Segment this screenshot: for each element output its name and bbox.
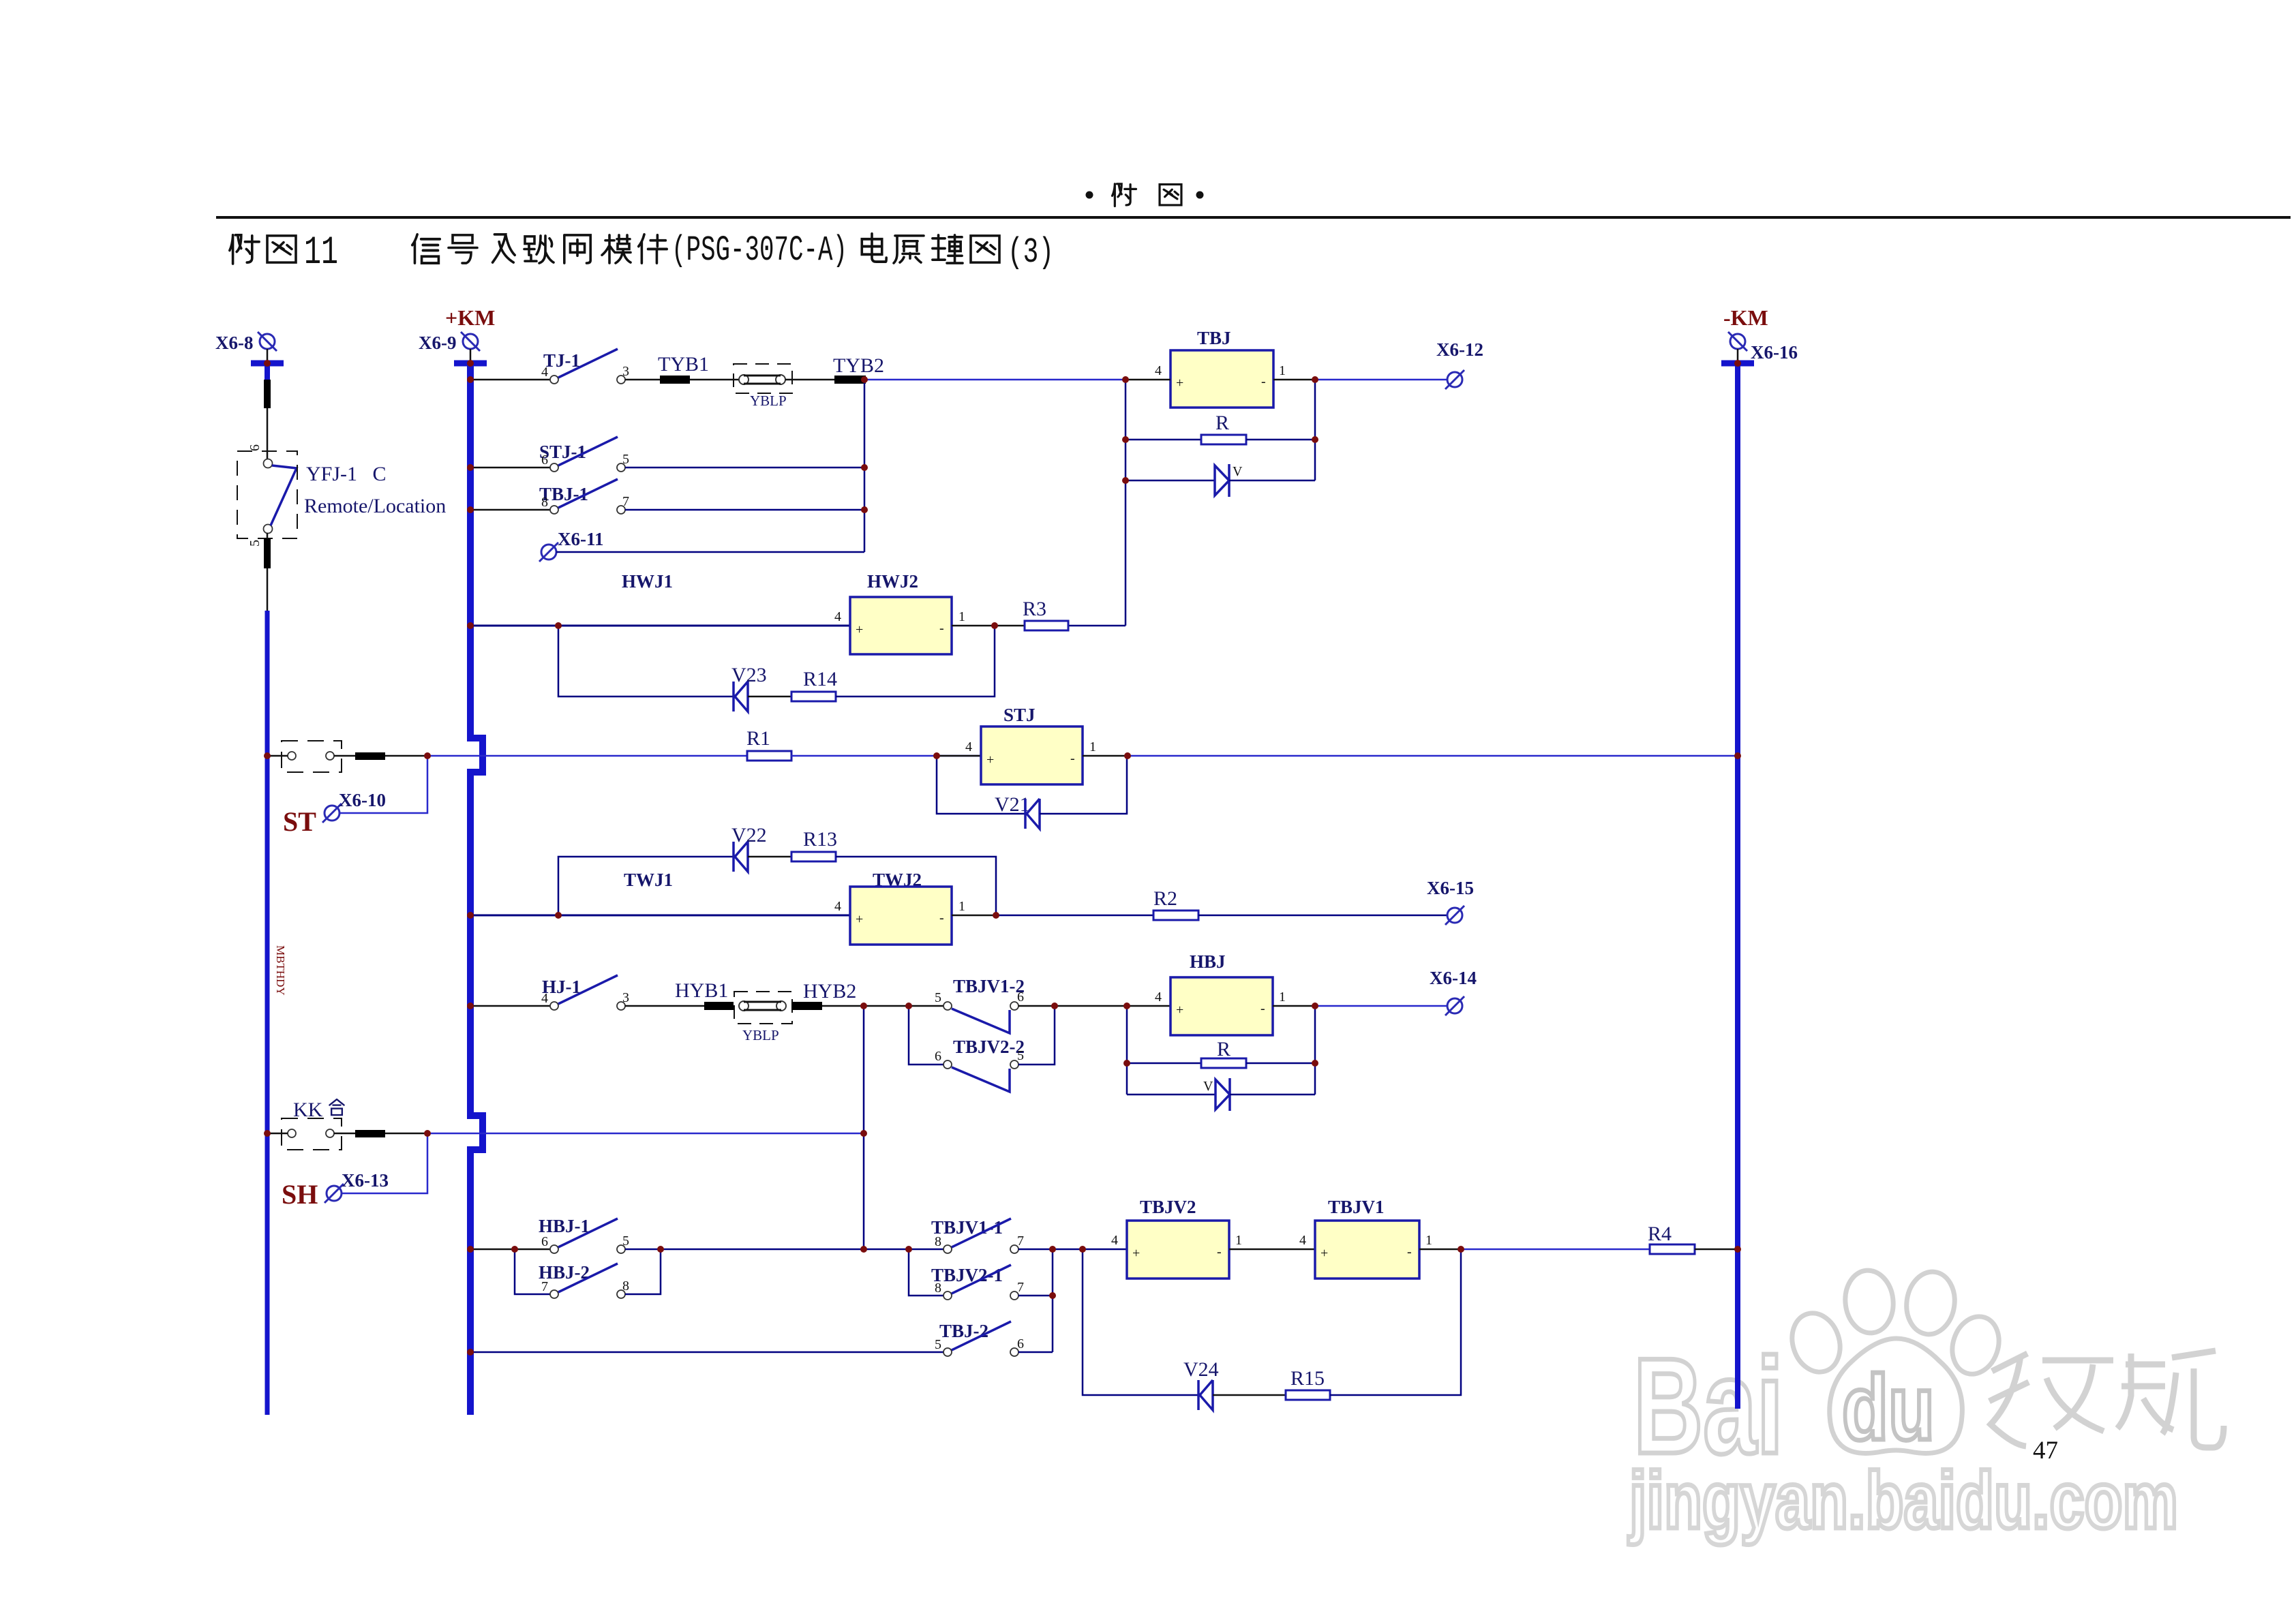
svg-text:R4: R4 — [1648, 1223, 1672, 1245]
svg-text:R15: R15 — [1290, 1367, 1325, 1390]
wire TBJV1-1 to TBJV2 — [1018, 1249, 1127, 1251]
svg-text:TBJ: TBJ — [1197, 328, 1231, 348]
svg-text:+: + — [1176, 376, 1183, 391]
lamp YBLP bottom — [739, 1001, 786, 1011]
title char jian — [639, 234, 667, 263]
title char dian — [862, 234, 886, 262]
junction dots TBJ RV — [1122, 436, 1129, 443]
wire mark to junction ST — [385, 755, 427, 757]
svg-text:4: 4 — [541, 991, 548, 1006]
svg-text:X6-9: X6-9 — [419, 333, 457, 353]
terminal X6-14 circle — [1445, 996, 1464, 1015]
contact TBJV2-1 — [943, 1265, 1018, 1300]
terminal X6-10 circle — [322, 804, 342, 823]
svg-text:V22: V22 — [731, 824, 767, 846]
YFJ-1 changeover contact — [264, 459, 297, 534]
resistor R1 — [747, 751, 791, 761]
vertical TBJ left — [1125, 380, 1127, 626]
resistor R of TBJ — [1201, 435, 1246, 444]
title char zha — [564, 235, 590, 263]
svg-text:TJ-1: TJ-1 — [543, 350, 580, 371]
svg-text:1: 1 — [1425, 1233, 1432, 1248]
contact TBJV1-1 — [943, 1219, 1018, 1253]
resistor R2 — [1153, 911, 1198, 920]
contact HJ-1 — [550, 975, 625, 1010]
fuse link TYB2 — [834, 376, 866, 384]
loop V22 left — [558, 857, 733, 915]
terminal X6-15 circle — [1445, 906, 1464, 925]
svg-text:+KM: +KM — [445, 305, 495, 330]
wire thin below cable mark — [267, 568, 269, 611]
header dot left — [1086, 192, 1093, 199]
wire below YFJ — [267, 533, 269, 538]
svg-text:8: 8 — [541, 495, 548, 510]
loop V23 right vertical — [836, 626, 995, 697]
svg-text:8: 8 — [622, 1279, 629, 1294]
wire HBJ-1 right — [625, 1249, 864, 1251]
branch to X6-13 — [342, 1133, 427, 1193]
terminal X6-9 circle — [461, 332, 480, 351]
svg-text:7: 7 — [1017, 1280, 1024, 1295]
watermark paw pad — [1830, 1338, 1963, 1453]
svg-text:X6-10: X6-10 — [339, 790, 386, 810]
branch to X6-10 — [339, 756, 427, 813]
svg-text:TBJV1-2: TBJV1-2 — [953, 976, 1025, 996]
relay TBJ — [1170, 350, 1273, 408]
terminal X6-16 circle — [1728, 332, 1747, 351]
contact TBJ-1 — [550, 479, 625, 514]
svg-text:+: + — [1132, 1246, 1140, 1261]
wire node to TBJV1-1 — [864, 1249, 943, 1251]
svg-text:5: 5 — [935, 990, 941, 1005]
svg-text:X6-8: X6-8 — [215, 333, 254, 353]
wire left line to ST — [267, 755, 288, 757]
terminal X6-13 circle — [324, 1184, 344, 1203]
svg-text:4: 4 — [541, 365, 548, 380]
wire TBJV1-2 to HBJ — [1018, 1005, 1170, 1007]
svg-text:-: - — [1217, 1244, 1222, 1259]
svg-text:4: 4 — [1155, 990, 1162, 1005]
vertical TBJ right — [1314, 380, 1316, 480]
svg-text:1: 1 — [958, 609, 965, 624]
wire KK to mark — [334, 1133, 355, 1135]
junction dots ST row — [424, 752, 431, 759]
pin wire HWJ2 1 — [952, 625, 995, 627]
title char li — [933, 235, 963, 263]
loop V24 left — [1083, 1249, 1198, 1395]
terminal X6-16 stub — [1737, 349, 1739, 361]
watermark paw toe2 — [1842, 1268, 1896, 1336]
diode V21 — [1025, 799, 1040, 829]
svg-text:YBLP: YBLP — [742, 1027, 779, 1043]
pin wire TBJ 4 — [1126, 379, 1170, 381]
svg-text:R13: R13 — [803, 828, 837, 851]
svg-text:R1: R1 — [746, 727, 770, 750]
wire bus to TBJ-2 — [470, 1351, 943, 1353]
terminal X6-16 T-bar — [1721, 361, 1754, 367]
pushbutton ST dashed box — [282, 741, 342, 772]
watermark jing char — [1989, 1353, 2113, 1446]
cable mark black lower — [264, 538, 271, 568]
diode V of TBJ — [1215, 464, 1229, 497]
vertical HBJ left — [1126, 1006, 1128, 1095]
wire TYB1 to YBLP — [690, 379, 739, 381]
relay TWJ2 — [850, 887, 952, 945]
svg-text:6: 6 — [541, 453, 548, 468]
SECTION: dots — [264, 360, 1741, 1356]
svg-text:+: + — [1320, 1246, 1328, 1261]
svg-text:YFJ-1 C: YFJ-1 C — [306, 463, 387, 485]
relay TBJV2 — [1127, 1221, 1229, 1279]
svg-text:7: 7 — [1017, 1234, 1024, 1249]
svg-text:TYB1: TYB1 — [658, 353, 709, 376]
svg-text:V: V — [1233, 464, 1243, 479]
wire R row HBJ right — [1246, 1062, 1315, 1065]
title char ji — [493, 234, 515, 262]
wire HYB2 to TBJV group — [822, 1005, 943, 1007]
fuse link HYB1 — [704, 1002, 734, 1010]
watermark paw toe3 — [1903, 1269, 1959, 1338]
svg-text:V23: V23 — [731, 664, 767, 686]
junction dots left line — [264, 360, 271, 367]
svg-text:X6-16: X6-16 — [1751, 342, 1798, 363]
junction dot TBJV2-1 row — [1049, 1292, 1056, 1299]
svg-text:YBLP: YBLP — [750, 393, 787, 409]
watermark yan char — [2117, 1351, 2224, 1448]
svg-text:5: 5 — [935, 1337, 941, 1352]
wire X6-8 stub — [267, 349, 269, 361]
wire YBLP to TYB2 — [785, 379, 834, 381]
svg-text:HWJ2: HWJ2 — [867, 571, 918, 592]
SECTION: kk — [267, 1099, 864, 1210]
svg-text:HBJ-1: HBJ-1 — [539, 1216, 590, 1236]
svg-text:7: 7 — [622, 494, 629, 509]
SECTION: bottom — [470, 1197, 1738, 1410]
wire mark to junction KK — [385, 1133, 427, 1135]
title char tiao — [524, 236, 554, 263]
corner R3 to TBJ vertical — [1068, 625, 1126, 627]
svg-text:4: 4 — [834, 609, 841, 624]
title char xin — [412, 234, 440, 263]
svg-text:+: + — [1176, 1003, 1183, 1017]
loop V21 left — [937, 756, 1025, 814]
header dot right — [1196, 192, 1204, 199]
svg-text:-: - — [939, 621, 944, 636]
svg-text:HYB2: HYB2 — [803, 980, 856, 1003]
contact HBJ-2 — [550, 1264, 625, 1298]
svg-text:5: 5 — [622, 1234, 629, 1249]
junction dots HBJ RV — [1123, 1060, 1130, 1067]
SECTION: twj — [470, 824, 1474, 945]
wire left line to KK — [267, 1133, 288, 1135]
svg-text:3: 3 — [622, 364, 629, 379]
terminal X6-11 circle — [539, 542, 558, 562]
YBLP dashed bracket top — [734, 364, 792, 393]
svg-text:Remote/Location: Remote/Location — [304, 495, 446, 517]
wire V row HBJ left — [1127, 1094, 1215, 1096]
vertical TBJV right — [1052, 1249, 1054, 1352]
svg-text:ST: ST — [283, 806, 316, 837]
svg-text:8: 8 — [935, 1281, 941, 1296]
wire TBJ to X6-12 — [1315, 379, 1447, 381]
cable mark black upper — [264, 380, 271, 408]
title char hao — [449, 235, 477, 263]
terminal X6-8 T-bar — [251, 361, 284, 367]
vertical HBJ right — [1314, 1006, 1316, 1095]
junction dots TJ row — [861, 376, 868, 383]
SECTION: watermark — [1628, 1268, 2224, 1546]
svg-text:TYB2: TYB2 — [833, 354, 884, 377]
svg-text:R14: R14 — [803, 668, 837, 690]
svg-text:X6-14: X6-14 — [1430, 968, 1477, 988]
svg-text:TBJV2-2: TBJV2-2 — [953, 1037, 1025, 1057]
svg-text:jingyan.baidu.com: jingyan.baidu.com — [1628, 1456, 2178, 1546]
svg-text:6: 6 — [541, 1234, 548, 1249]
junction dots bus +KM — [467, 376, 474, 383]
resistor R4 — [1650, 1244, 1695, 1254]
svg-text:+: + — [856, 622, 863, 637]
junction dots HWJ row — [555, 622, 562, 629]
junction dots HJ row — [860, 1003, 867, 1009]
svg-text:HWJ1: HWJ1 — [622, 571, 673, 592]
svg-text:R2: R2 — [1153, 887, 1177, 910]
SECTION: hj row — [470, 951, 1477, 1249]
title char tu — [267, 236, 296, 262]
svg-text:X6-15: X6-15 — [1427, 878, 1474, 898]
junction dots TWJ row — [555, 912, 562, 919]
svg-text:-: - — [939, 911, 944, 925]
svg-text:MBTHDY: MBTHDY — [274, 945, 287, 996]
svg-text:-: - — [1407, 1244, 1412, 1259]
svg-text:(3): (3) — [1008, 232, 1054, 273]
wire R row HBJ left — [1127, 1062, 1201, 1065]
svg-text:1: 1 — [1089, 739, 1096, 754]
wire R1 to STJ — [791, 755, 981, 757]
svg-text:-: - — [1260, 1001, 1265, 1016]
svg-text:7: 7 — [541, 1279, 548, 1294]
wire TBJ-1 to node — [625, 509, 864, 511]
loop V22 right — [836, 857, 996, 915]
wire V row TBJ left — [1126, 480, 1215, 482]
terminal X6-9 stub — [470, 349, 472, 361]
wire ST to mark — [334, 755, 355, 757]
wire bus to HWJ2 — [470, 625, 850, 627]
left branch blue line — [265, 611, 270, 1415]
svg-text:-: - — [1070, 751, 1075, 766]
svg-text:-: - — [1261, 374, 1266, 389]
svg-text:(PSG-307C-A): (PSG-307C-A) — [671, 230, 847, 271]
wire R row TBJ right — [1246, 439, 1315, 441]
wire R row TBJ left — [1126, 439, 1201, 441]
wire bus to TWJ2 — [470, 915, 850, 917]
watermark paw toe4 — [1945, 1311, 2006, 1380]
SECTION: buses — [215, 305, 1798, 1415]
resistor R3 — [1025, 621, 1068, 630]
SECTION: stj — [267, 705, 1738, 837]
wire bus to STJ-1 — [470, 467, 550, 469]
loop V24 right — [1330, 1249, 1461, 1395]
svg-text:8: 8 — [935, 1234, 941, 1249]
loop HBJ-2 right — [625, 1249, 661, 1294]
pin wire TBJV1 1 — [1419, 1249, 1462, 1251]
node vertical HYB2 down — [863, 1006, 865, 1249]
svg-text:-KM: -KM — [1723, 305, 1768, 330]
wire V23 to R14 — [748, 696, 791, 698]
svg-text:3: 3 — [622, 990, 629, 1005]
svg-text:TBJV1: TBJV1 — [1328, 1197, 1385, 1217]
cable mark ST — [355, 752, 385, 760]
YFJ-1 dashed box — [237, 451, 297, 538]
wire V row HBJ right — [1230, 1094, 1315, 1096]
wire R2 to X6-15 — [1198, 915, 1447, 917]
diode V24 — [1198, 1380, 1213, 1410]
svg-text:47: 47 — [2033, 1437, 2058, 1465]
contact TBJV2-2 — [943, 1060, 1018, 1092]
header rule — [216, 216, 2291, 219]
contact STJ-1 — [550, 437, 625, 472]
svg-text:1: 1 — [958, 899, 965, 914]
wire bus to TJ-1 — [470, 379, 550, 381]
svg-text:R: R — [1215, 412, 1229, 434]
contact HBJ-1 — [550, 1219, 625, 1253]
svg-text:+: + — [856, 912, 863, 927]
resistor R14 — [791, 692, 836, 701]
wire bus to HJ-1 — [470, 1005, 550, 1007]
contact TJ-1 — [550, 349, 625, 384]
diode V of HBJ — [1215, 1078, 1230, 1111]
wire STJ pin1 to node — [1083, 755, 1128, 757]
svg-text:du: du — [1842, 1356, 1935, 1459]
svg-text:HBJ: HBJ — [1190, 951, 1226, 972]
svg-text:4: 4 — [1111, 1233, 1118, 1248]
svg-text:4: 4 — [834, 899, 841, 914]
wire V22 to R13 — [748, 856, 791, 858]
loop V23 left vertical — [558, 626, 733, 697]
wire below X6-8 bar blue — [265, 363, 270, 380]
svg-text:SH: SH — [282, 1179, 318, 1210]
SECTION: row TJ — [470, 349, 1126, 562]
svg-text:11: 11 — [304, 231, 338, 275]
wire bus to HBJ-1 — [470, 1249, 550, 1251]
junction dots KK row — [424, 1130, 431, 1137]
svg-text:X6-11: X6-11 — [558, 529, 604, 549]
relay HWJ2 — [850, 597, 952, 654]
relay STJ — [981, 726, 1083, 784]
svg-text:5: 5 — [247, 540, 262, 547]
title char yuan — [894, 236, 924, 263]
wire ST junction to R1 — [427, 755, 747, 757]
contact TBJV1-2 — [943, 1002, 1018, 1033]
svg-text:5: 5 — [1017, 1048, 1024, 1063]
pushbutton KK dashed box — [282, 1118, 342, 1150]
wire R4 to -KM — [1695, 1249, 1738, 1251]
SECTION: hwj — [470, 571, 1068, 711]
svg-text:4: 4 — [1299, 1233, 1306, 1248]
svg-text:R3: R3 — [1023, 598, 1046, 620]
wire to YFJ contact — [267, 408, 269, 459]
bus -KM — [1735, 363, 1740, 1409]
terminal X6-12 circle — [1445, 370, 1464, 389]
loop TBJV2-2 right — [1018, 1006, 1055, 1065]
wire STJ-1 to node — [625, 467, 864, 469]
title char fu — [230, 235, 259, 264]
wire TYB2 to TBJ node — [864, 379, 1126, 381]
svg-text:6: 6 — [1017, 990, 1024, 1005]
svg-text:TBJV2: TBJV2 — [1140, 1197, 1196, 1217]
svg-text:STJ: STJ — [1003, 705, 1036, 725]
wire bus to TBJ-1 — [470, 509, 550, 511]
resistor R of HBJ — [1201, 1058, 1246, 1068]
wire TBJV1 to R4 — [1462, 1249, 1650, 1251]
title char mo — [602, 235, 631, 263]
svg-text:R: R — [1217, 1038, 1230, 1060]
loop TBJV2-1 left — [909, 1249, 943, 1296]
title char tu2 — [971, 236, 999, 262]
pin wire TBJ 1 — [1273, 379, 1315, 381]
svg-text:6: 6 — [1017, 1336, 1024, 1351]
wire KK junction to node — [427, 1133, 864, 1135]
loop V21 right — [1040, 756, 1127, 814]
terminal X6-9 T-bar — [454, 361, 487, 367]
pin wire HBJ 1 — [1273, 1005, 1315, 1007]
fuse link TYB1 — [660, 376, 690, 384]
svg-text:6: 6 — [247, 444, 262, 451]
svg-text:HYB1: HYB1 — [675, 979, 728, 1002]
junction dots node vertical — [861, 464, 868, 471]
char HE of KKhe — [329, 1099, 344, 1115]
svg-text:4: 4 — [965, 739, 972, 754]
node vertical TYB2 down to X6-11 row — [864, 380, 866, 552]
wire HWJ2 to R3 — [995, 625, 1025, 627]
relay TBJV1 — [1315, 1221, 1419, 1279]
loop TBJV2-2 left — [909, 1006, 943, 1065]
junction dots HBJ-1 row — [511, 1246, 518, 1253]
YBLP dashed bracket bottom — [734, 992, 792, 1024]
fuse link HYB2 — [791, 1002, 822, 1010]
wire STJ row to -KM — [1128, 755, 1738, 757]
svg-text:+: + — [986, 752, 994, 767]
wire HJ-1 to HYB1 — [625, 1005, 704, 1007]
svg-text:5: 5 — [622, 452, 629, 467]
SECTION: tbj block — [1068, 328, 1483, 626]
watermark paw toe1 — [1785, 1307, 1847, 1379]
diode V23 — [734, 682, 748, 711]
wire TWJ2 to R2 — [996, 915, 1153, 917]
svg-text:TWJ1: TWJ1 — [624, 870, 673, 890]
cable mark KK — [355, 1130, 385, 1137]
svg-text:1: 1 — [1279, 990, 1286, 1005]
svg-text:4: 4 — [1155, 363, 1162, 378]
wire X6-11 to node — [556, 551, 864, 553]
wire HBJ to X6-14 — [1315, 1005, 1447, 1007]
wire TBJV2-1 to vertical — [1018, 1295, 1053, 1297]
pin wire TWJ2 1 — [952, 915, 996, 917]
wire V24 to R15 — [1213, 1394, 1286, 1396]
contact TBJ-2 — [943, 1321, 1018, 1356]
resistor R15 — [1286, 1390, 1330, 1400]
pushbutton ST contacts — [288, 752, 334, 760]
loop HBJ-2 left — [515, 1249, 550, 1294]
bus +KM with jogs — [470, 363, 483, 1415]
header char TU (tu) — [1160, 185, 1181, 205]
header char FU (fu) — [1113, 184, 1136, 206]
SECTION: header — [216, 184, 2291, 275]
svg-text:V24: V24 — [1183, 1358, 1219, 1381]
svg-text:6: 6 — [935, 1049, 941, 1064]
svg-text:1: 1 — [1279, 363, 1286, 378]
svg-text:V: V — [1203, 1079, 1213, 1094]
pin wire STJ 4 — [937, 755, 981, 757]
